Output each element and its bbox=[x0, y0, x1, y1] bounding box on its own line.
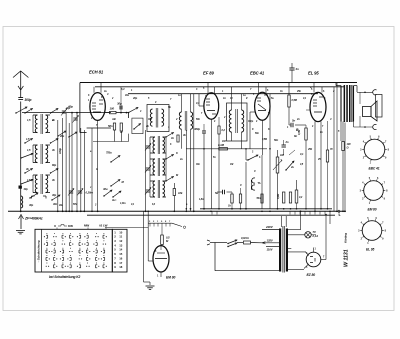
resistor cathode EF89 bbox=[218, 117, 226, 209]
wire mains bottom bbox=[215, 243, 279, 271]
svg-text:MW: MW bbox=[84, 224, 89, 228]
svg-text:C: C bbox=[240, 183, 242, 187]
svg-text:0,5: 0,5 bbox=[166, 236, 170, 240]
mains voltage taps bbox=[262, 225, 279, 252]
svg-text:50n: 50n bbox=[257, 197, 262, 200]
antenna bbox=[13, 71, 28, 98]
ground left bbox=[16, 231, 25, 234]
capacitor 300p EF89 bbox=[194, 124, 206, 210]
wire after resistor bbox=[105, 112, 128, 114]
speaker LS bbox=[363, 101, 378, 121]
wire tuning grid line bbox=[22, 112, 111, 114]
capacitor padder trimmers bbox=[68, 189, 94, 196]
tube EBC41 U3 bbox=[250, 83, 270, 156]
svg-text:300p: 300p bbox=[194, 127, 200, 131]
node ZF arrow bbox=[19, 215, 24, 230]
svg-text:EL 95: EL 95 bbox=[308, 71, 319, 76]
wire antenna to gang bbox=[20, 196, 22, 212]
mains input bbox=[207, 240, 227, 245]
label Koerting W1131 bbox=[344, 233, 350, 267]
svg-text:30p: 30p bbox=[29, 203, 34, 207]
svg-text:30p: 30p bbox=[148, 118, 152, 121]
IF transformer T1b coils bbox=[179, 94, 192, 212]
table contact grid bbox=[44, 233, 107, 268]
svg-text:LW: LW bbox=[103, 224, 108, 228]
svg-text:25k: 25k bbox=[296, 90, 301, 93]
wire AVC line bbox=[186, 148, 267, 150]
antenna coil group K bbox=[24, 109, 58, 135]
switch antenna input bbox=[15, 102, 27, 197]
svg-text:4n: 4n bbox=[295, 67, 299, 71]
switch pickup bbox=[246, 149, 261, 161]
switch band left 2 and capacitor 40p bbox=[19, 179, 34, 191]
svg-text:50V: 50V bbox=[73, 203, 77, 206]
switch band osc bbox=[128, 108, 138, 119]
svg-text:40p: 40p bbox=[65, 106, 71, 110]
capacitor 4n top bbox=[289, 63, 299, 83]
svg-text:20p: 20p bbox=[59, 134, 65, 138]
header leader line A2 bbox=[99, 224, 148, 228]
wire speaker leads bbox=[354, 92, 374, 128]
svg-text:→Schaltrichtung: →Schaltrichtung bbox=[37, 240, 41, 263]
svg-text:5n: 5n bbox=[292, 119, 295, 123]
svg-text:80p: 80p bbox=[52, 163, 57, 167]
switch table frame bbox=[35, 229, 127, 272]
switch M2 bbox=[110, 180, 124, 187]
svg-text:KW: KW bbox=[68, 224, 73, 228]
capacitor 30u electrolytic bbox=[103, 187, 126, 205]
capacitor 300p antenna bbox=[18, 98, 31, 103]
wire screen bus bbox=[128, 93, 318, 95]
svg-text:8n: 8n bbox=[294, 134, 297, 138]
power transformer T4 bbox=[279, 216, 288, 273]
svg-text:AB: AB bbox=[111, 117, 116, 121]
svg-text:40a: 40a bbox=[124, 94, 129, 97]
capacitor 5n coupling bbox=[289, 119, 306, 128]
svg-text:1,8m: 1,8m bbox=[120, 201, 126, 205]
svg-text:EM 80: EM 80 bbox=[166, 276, 176, 280]
labels small left bottom bbox=[29, 202, 58, 207]
svg-text:EZ 80: EZ 80 bbox=[307, 273, 316, 277]
tube label EBC41 bbox=[250, 71, 265, 76]
wire B+ top bus bbox=[80, 82, 357, 84]
label 100p bbox=[58, 148, 62, 154]
svg-text:EL 95: EL 95 bbox=[366, 248, 375, 252]
micro value labels scatter bbox=[25, 86, 332, 197]
wire vertical column left bbox=[57, 113, 85, 213]
svg-text:4u=: 4u= bbox=[111, 198, 117, 202]
coil antenna choke bbox=[21, 196, 23, 208]
switch tone bbox=[285, 150, 295, 171]
ground EM80 bbox=[146, 286, 155, 289]
svg-text:2n: 2n bbox=[285, 140, 289, 144]
capacitor trimmer 40p bbox=[61, 105, 73, 116]
svg-text:10k: 10k bbox=[178, 191, 183, 195]
output jack bracket bbox=[373, 90, 382, 130]
oscillator coil group 3 bbox=[145, 177, 174, 199]
svg-text:Ω: Ω bbox=[346, 146, 349, 150]
wire transformer secondaries bbox=[288, 230, 305, 270]
svg-text:0,1A: 0,1A bbox=[313, 234, 319, 238]
svg-text:EBC 41: EBC 41 bbox=[250, 71, 265, 76]
antenna coil group M bbox=[24, 139, 58, 165]
svg-text:φ 9,5: φ 9,5 bbox=[337, 209, 341, 216]
svg-text:0,28m: 0,28m bbox=[86, 191, 94, 195]
svg-text:40n: 40n bbox=[52, 202, 58, 206]
svg-text:100p: 100p bbox=[58, 148, 62, 154]
resistor plate EBC41 bbox=[288, 83, 298, 126]
svg-text:40u: 40u bbox=[58, 204, 63, 207]
tube EF89 U2 bbox=[199, 83, 219, 209]
svg-text:300p: 300p bbox=[248, 120, 254, 123]
label ZF=468kHz bbox=[24, 217, 43, 221]
svg-text:W 1131: W 1131 bbox=[344, 249, 350, 267]
svg-text:100: 100 bbox=[110, 107, 115, 111]
table caption bbox=[49, 275, 81, 279]
wire right feeders bbox=[334, 83, 346, 213]
shield box ECH81 bbox=[80, 83, 111, 133]
svg-text:30p: 30p bbox=[117, 102, 122, 106]
svg-text:750u: 750u bbox=[106, 151, 112, 155]
tube label ECH81 bbox=[89, 70, 104, 75]
svg-text:EM 80: EM 80 bbox=[368, 208, 377, 212]
svg-text:30u: 30u bbox=[103, 187, 108, 191]
svg-text:U: U bbox=[54, 224, 56, 228]
wire ECH81 cathode bbox=[92, 128, 98, 212]
capacitor 50n bbox=[108, 123, 116, 130]
wire EM80 pin header bbox=[148, 221, 186, 228]
svg-text:0,8/1A: 0,8/1A bbox=[241, 236, 249, 240]
wires ECH81 bottom links bbox=[93, 130, 129, 142]
capacitor 50n bottom bbox=[257, 194, 264, 203]
wire ground bus bbox=[8, 210, 345, 212]
svg-text:ECH 81: ECH 81 bbox=[89, 70, 104, 75]
svg-text:50n: 50n bbox=[274, 138, 279, 142]
switch row above table bbox=[29, 193, 60, 201]
resistor 100 ohm output bbox=[342, 122, 351, 212]
potentiometer volume 1M bbox=[273, 150, 284, 210]
micro labels above ground bus bbox=[58, 198, 205, 207]
svg-text:100: 100 bbox=[347, 142, 352, 146]
wire rectifier feeds bbox=[300, 211, 330, 260]
tube EM80 U6 bbox=[148, 246, 175, 280]
resistor 1k bottom bbox=[228, 192, 233, 209]
svg-text:ZF=468kHz: ZF=468kHz bbox=[24, 217, 43, 221]
label phi 9.5 bbox=[337, 209, 341, 216]
svg-text:EF 89: EF 89 bbox=[203, 71, 214, 76]
antenna coil group L bbox=[24, 169, 58, 195]
lamp dial 7V 0.1A bbox=[305, 230, 318, 238]
switch mains bbox=[227, 240, 243, 247]
shield box small with switch bbox=[132, 118, 143, 134]
wire IF verticals bbox=[186, 94, 195, 212]
switch band left 1 bbox=[20, 153, 33, 158]
wire heater bus bbox=[87, 214, 335, 216]
resistor bottom 2 bbox=[239, 188, 241, 209]
svg-text:25k: 25k bbox=[307, 147, 313, 151]
output transformer T3 bbox=[336, 83, 357, 142]
micro labels band 2 bbox=[88, 87, 340, 189]
resistor grid leak bbox=[120, 123, 122, 131]
oscillator coil group 2 bbox=[145, 155, 174, 177]
svg-text:30n: 30n bbox=[196, 163, 200, 166]
resistor bottom 3 bbox=[289, 192, 291, 203]
oscillator coil group 1 bbox=[145, 133, 174, 155]
resistor 10k osc bbox=[173, 183, 183, 211]
wire second top bus bbox=[95, 86, 345, 88]
svg-text:20p: 20p bbox=[132, 96, 138, 100]
IF transformer T2 bbox=[227, 87, 248, 149]
wire osc verticals bbox=[145, 130, 166, 212]
pickup jack contacts bbox=[251, 178, 260, 190]
resistor 1k bbox=[171, 135, 179, 142]
capacitor 30p osc bbox=[117, 87, 122, 113]
svg-text:50n: 50n bbox=[255, 132, 259, 135]
svg-text:bei Schaltstellung K2: bei Schaltstellung K2 bbox=[49, 275, 81, 279]
tube base diagram EBC41 bbox=[360, 136, 389, 171]
capacitor 5u coupling bbox=[215, 190, 232, 195]
tube EL95 U4 bbox=[306, 83, 326, 212]
tube base diagram EM80 bbox=[360, 177, 388, 212]
resistor bottom 4 bbox=[295, 180, 303, 209]
switches band selector mid bbox=[57, 131, 77, 138]
svg-text:40p: 40p bbox=[23, 187, 29, 191]
resistor 100 ohm bbox=[110, 107, 117, 114]
svg-text:0,1M: 0,1M bbox=[218, 143, 225, 147]
svg-text:EBC 41: EBC 41 bbox=[369, 167, 380, 171]
svg-text:Körting: Körting bbox=[344, 233, 348, 243]
resistor 0.1M AVC bbox=[218, 143, 228, 150]
heater ticks bbox=[212, 211, 325, 214]
svg-text:2u: 2u bbox=[290, 165, 294, 169]
wire detector verticals bbox=[245, 94, 271, 210]
resistor 0.5M EM80 bbox=[161, 227, 170, 247]
rectifier tube EZ80 U5 bbox=[304, 248, 326, 278]
resistor grid EL95 bbox=[298, 125, 307, 209]
svg-text:0,5M: 0,5M bbox=[292, 98, 298, 102]
junction dots ground bus bbox=[20, 208, 346, 212]
capacitor trimmer gang bbox=[73, 116, 79, 123]
table header labels bbox=[54, 224, 108, 230]
svg-text:300p: 300p bbox=[25, 98, 32, 102]
svg-text:50n: 50n bbox=[108, 124, 113, 128]
label B bbox=[294, 128, 299, 138]
svg-text:TA: TA bbox=[258, 181, 261, 185]
fuse 0.8/1A bbox=[241, 236, 262, 244]
svg-text:C: C bbox=[254, 169, 256, 173]
wire lower bus bbox=[200, 208, 332, 210]
capacitor 2n tone bbox=[282, 140, 289, 155]
IF transformer T1 bbox=[147, 105, 169, 132]
svg-text:5u: 5u bbox=[215, 191, 218, 195]
tube ECH81 U1 bbox=[88, 83, 105, 129]
svg-text:30p: 30p bbox=[52, 193, 57, 197]
svg-text:220V: 220V bbox=[265, 225, 274, 229]
resistor 0.1M bottom bbox=[277, 192, 285, 203]
wire EM80 connections bbox=[144, 211, 151, 286]
tube base diagram EL95 bbox=[358, 217, 386, 252]
tube label EL95 bbox=[308, 71, 319, 76]
resistor cathode EL95 bbox=[326, 121, 328, 209]
switch M1 with 750u label bbox=[106, 151, 120, 163]
table vertical label bbox=[37, 240, 41, 263]
table pin numbers bbox=[114, 230, 122, 269]
tube label EF89 bbox=[203, 71, 214, 76]
